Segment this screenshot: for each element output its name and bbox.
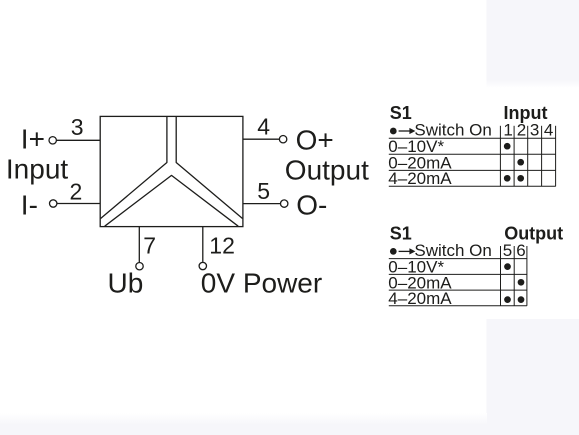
wire terminal 3 to box — [57, 139, 101, 141]
page background bottom-right — [487, 319, 579, 435]
svg-text:0V Power: 0V Power — [201, 268, 322, 299]
table1 grid hline 1 — [389, 137, 556, 139]
svg-text:Output: Output — [504, 224, 563, 244]
svg-text:6: 6 — [516, 241, 525, 260]
svg-text:Input: Input — [6, 153, 68, 184]
wire box to terminal 5 — [243, 203, 281, 205]
table1 row label 0-10V* — [388, 137, 444, 156]
terminal circle 5 (O-) — [281, 200, 288, 207]
table2 grid vline c — [526, 246, 528, 306]
table1 column number 1 — [503, 121, 512, 140]
table2 dot row1 col5 — [504, 263, 511, 270]
table2 grid vline b — [513, 246, 515, 306]
table1 grid vline c — [527, 126, 529, 186]
table1 column number 4 — [544, 121, 553, 140]
svg-text:4: 4 — [544, 121, 553, 140]
label Output — [285, 154, 369, 185]
svg-text:Output: Output — [285, 154, 369, 185]
terminal circle 3 (I+) — [49, 137, 56, 144]
label Ub — [108, 268, 144, 299]
table2 dot row3 col6 — [518, 296, 525, 303]
table1 dot row2 col2 — [517, 159, 524, 166]
table1 column number 3 — [530, 121, 539, 140]
wire box to terminal 7 — [138, 227, 140, 262]
pin number 4 — [257, 113, 270, 139]
table2 grid hline 2 — [389, 273, 527, 275]
svg-text:2: 2 — [517, 121, 526, 140]
table1 row label Switch On — [414, 121, 491, 140]
terminal circle 2 (I-) — [50, 200, 57, 207]
svg-text:5: 5 — [503, 241, 512, 260]
table1 header Input — [504, 103, 548, 123]
table1 switch-on bullet — [390, 128, 397, 135]
svg-text:1: 1 — [503, 121, 512, 140]
table1 dot row3 col2 — [517, 175, 524, 182]
table2 grid vline a — [500, 246, 502, 306]
svg-text:S1: S1 — [390, 103, 412, 123]
table1 switch-on arrow — [399, 128, 416, 134]
label I- — [21, 189, 38, 220]
svg-text:4: 4 — [257, 113, 270, 139]
table1 dot row3 col1 — [504, 175, 511, 182]
table2 switch-on bullet — [390, 248, 397, 255]
table1 grid hline 2 — [389, 153, 556, 155]
isolation divider right branch — [176, 116, 242, 218]
label I+ — [21, 124, 45, 155]
terminal circle 4 (O+) — [279, 136, 286, 143]
svg-text:12: 12 — [209, 232, 235, 258]
svg-text:Ub: Ub — [108, 268, 144, 299]
svg-text:3: 3 — [530, 121, 539, 140]
table2 header S1 — [390, 224, 412, 244]
table2 column number 5 — [503, 241, 512, 260]
pin number 12 — [209, 232, 235, 258]
table1 grid hline 4 — [389, 185, 556, 187]
svg-text:7: 7 — [143, 232, 156, 258]
table2 grid hline 1 — [389, 258, 527, 260]
table2 grid hline 3 — [389, 289, 527, 291]
wire box to terminal 12 — [202, 227, 204, 262]
table2 row label 4-20mA — [388, 289, 452, 308]
table2 switch-on arrow — [399, 248, 416, 254]
table1 dot row1 col1 — [504, 143, 511, 150]
table1 grid vline a — [499, 126, 501, 186]
table1 grid hline 3 — [389, 169, 556, 171]
wire terminal 2 to box — [57, 203, 100, 205]
table2 row label 0-20mA — [388, 273, 452, 292]
module box U1 — [100, 116, 243, 226]
table1 grid vline e — [555, 126, 557, 186]
label Input — [6, 153, 68, 184]
svg-text:I-: I- — [21, 189, 38, 220]
pin number 3 — [71, 114, 84, 140]
table2 dot row2 col6 — [518, 279, 525, 286]
terminal circle 7 (Ub) — [136, 263, 143, 270]
svg-text:3: 3 — [71, 114, 84, 140]
page background bottom strip — [0, 413, 487, 425]
table1 header S1 — [390, 103, 412, 123]
page background top-right — [487, 0, 579, 80]
table2 column number 6 — [516, 241, 525, 260]
table2 grid hline 4 — [389, 305, 527, 307]
terminal circle 12 (0V) — [199, 262, 206, 269]
table1 column number 2 — [517, 121, 526, 140]
table1 grid vline d — [541, 126, 543, 186]
label 0V Power — [201, 268, 322, 299]
pin number 7 — [143, 232, 156, 258]
pin number 2 — [70, 178, 83, 204]
table1 row label 0-20mA — [388, 153, 452, 172]
isolation divider left branch — [101, 116, 167, 218]
svg-text:2: 2 — [70, 178, 83, 204]
wire box to terminal 4 — [243, 138, 279, 140]
table1 grid vline b — [513, 126, 515, 186]
table2 header Output — [504, 224, 563, 244]
table2 row label Switch On — [414, 241, 491, 260]
isolation divider inner V — [105, 175, 239, 226]
svg-text:O-: O- — [296, 190, 327, 221]
pin number 5 — [257, 178, 270, 204]
label O- — [296, 190, 327, 221]
svg-text:I+: I+ — [21, 124, 45, 155]
table1 row label 4-20mA — [388, 169, 452, 188]
svg-text:4–20mA: 4–20mA — [388, 169, 452, 188]
svg-text:S1: S1 — [390, 224, 412, 244]
table2 dot row3 col5 — [504, 296, 511, 303]
label O+ — [296, 124, 334, 155]
svg-text:5: 5 — [257, 178, 270, 204]
svg-text:O+: O+ — [296, 124, 334, 155]
table2 row label 0-10V* — [388, 257, 444, 276]
